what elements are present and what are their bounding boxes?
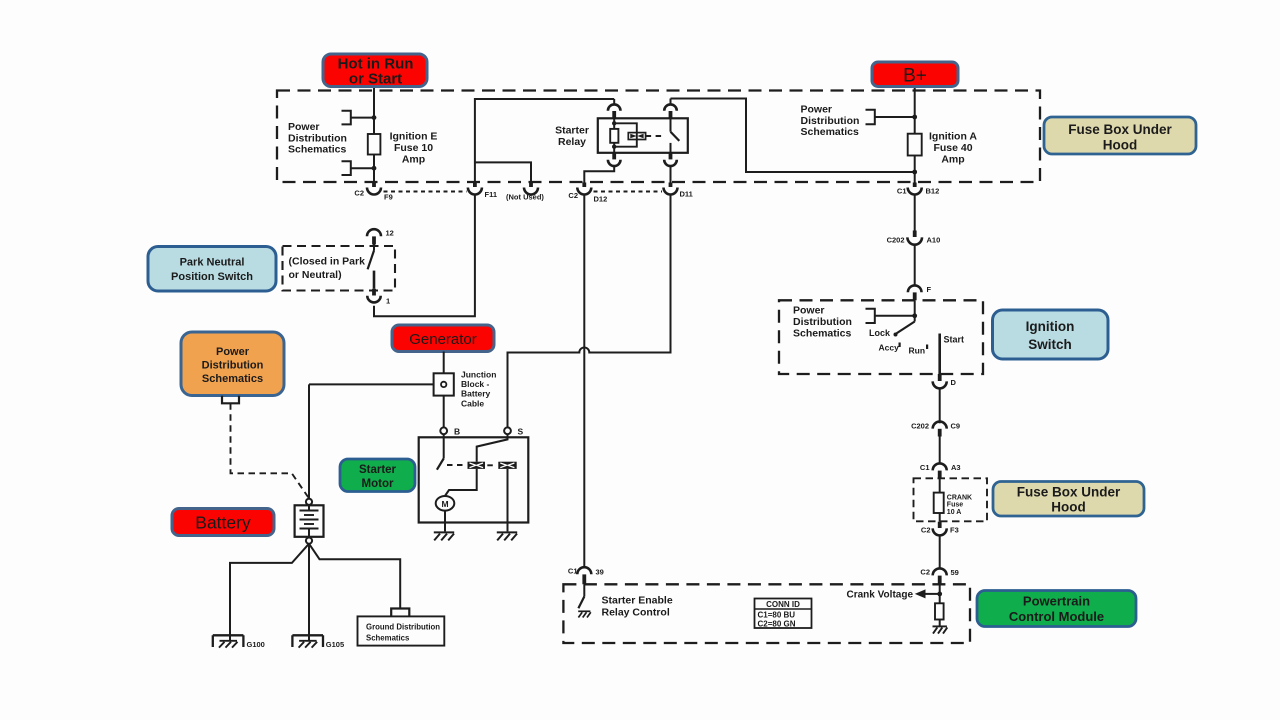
off-page connector bracket (to Ignition A fuse): [866, 110, 918, 125]
wire: battery negative to G100: [230, 544, 309, 640]
svg-text:12: 12: [386, 229, 394, 238]
wire: B+ to C202: [914, 195, 916, 231]
ground G100: [213, 635, 265, 649]
label: Starter Motor: [340, 459, 415, 492]
svg-text:Power: Power: [793, 305, 825, 317]
svg-text:Switch: Switch: [1028, 337, 1072, 352]
chassis ground (starter enable driver): [578, 611, 591, 617]
text: Power Distribution Schematics (ignition E feed): [288, 121, 347, 156]
svg-text:Park Neutral: Park Neutral: [180, 257, 245, 269]
powertrain control module enclosure (dashed box): [563, 584, 970, 643]
svg-text:39: 39: [596, 568, 604, 577]
svg-text:Starter Enable: Starter Enable: [602, 595, 673, 607]
label: Park Neutral Position Switch: [148, 247, 276, 292]
label: Ignition Switch: [993, 310, 1109, 359]
svg-text:C202: C202: [887, 236, 905, 245]
svg-text:Hood: Hood: [1051, 500, 1086, 515]
text: Starter Relay: [555, 125, 589, 149]
battery negative terminal: [306, 538, 312, 544]
svg-text:Junction: Junction: [461, 370, 496, 380]
svg-text:B+: B+: [903, 66, 927, 87]
battery positive terminal: [306, 499, 312, 505]
solenoid contact box 1: [468, 462, 486, 469]
svg-text:D12: D12: [594, 195, 608, 204]
svg-text:G105: G105: [326, 640, 344, 649]
svg-text:Battery: Battery: [195, 513, 251, 533]
svg-text:Control Module: Control Module: [1009, 609, 1104, 624]
starter relay box: [598, 118, 688, 153]
svg-text:Hood: Hood: [1103, 138, 1138, 153]
park neutral switch contacts: [368, 245, 374, 289]
text: Power Distribution Schematics (B+ feed): [801, 104, 860, 139]
connector C2 D12: [568, 183, 607, 204]
starter motor M: [436, 496, 455, 511]
svg-text:Generator: Generator: [409, 331, 477, 348]
svg-text:Fuse 10: Fuse 10: [394, 142, 433, 154]
connector D11: [664, 166, 693, 198]
svg-text:Ignition: Ignition: [1026, 319, 1075, 334]
svg-text:Power: Power: [216, 346, 250, 358]
svg-text:C202: C202: [911, 422, 929, 431]
ground distribution schematics box: [358, 616, 445, 645]
label: Fuse Box Under Hood (crank fuse): [993, 482, 1144, 517]
svg-text:G100: G100: [247, 640, 265, 649]
relay solenoid core (box with bowtie): [628, 133, 664, 140]
dashed wire: power distribution to battery: [231, 403, 310, 498]
text: Ignition A Fuse 40 Amp: [929, 131, 977, 166]
wire: motor to ground: [444, 511, 446, 532]
wire: Hot in Run feed through Ignition E fuse: [373, 86, 375, 183]
svg-text:C1: C1: [897, 187, 907, 196]
svg-text:Relay Control: Relay Control: [602, 607, 670, 619]
crank voltage sense arrow: [847, 584, 943, 603]
svg-text:Ignition A: Ignition A: [929, 131, 977, 143]
svg-text:Position Switch: Position Switch: [171, 271, 253, 283]
off-page tab above ground distribution box: [391, 609, 409, 617]
CONN ID table: [755, 599, 812, 629]
svg-text:C2: C2: [921, 526, 931, 535]
svg-text:Schematics: Schematics: [793, 328, 852, 340]
wire: solenoid S path to ground: [507, 469, 509, 532]
wire: S terminal to solenoid: [477, 434, 508, 462]
wire: F11 branch (from park/neutral switch up to starter relay coil): [374, 99, 614, 316]
svg-text:F11: F11: [485, 190, 498, 199]
connector F: [908, 285, 932, 300]
starter solenoid switch (B contact lever): [437, 434, 467, 470]
label: Power Distribution Schematics (orange): [181, 332, 284, 396]
chassis ground (starter solenoid): [497, 532, 517, 540]
connector: relay switch pin bottom: [664, 153, 677, 166]
svg-text:Schematics: Schematics: [202, 373, 263, 385]
relay switch contacts: [671, 118, 680, 153]
text: (Closed in Park or Neutral): [289, 256, 366, 282]
fuse: CRANK Fuse 10 A: [934, 478, 972, 521]
connector C1 B12: [897, 183, 939, 196]
battery: [295, 505, 324, 537]
svg-text:or Neutral): or Neutral): [289, 269, 342, 281]
off-page connector bracket (to Ignition E fuse, lower): [342, 161, 377, 175]
svg-text:Starter: Starter: [359, 464, 397, 476]
park neutral position switch enclosure (dashed box): [283, 246, 396, 291]
connector: relay switch pin top: [664, 99, 677, 119]
svg-text:Starter: Starter: [555, 125, 589, 137]
wire: solenoid to motor: [445, 469, 477, 496]
connector C202 C9: [911, 422, 960, 437]
wire: battery positive riser to junction block: [308, 384, 310, 498]
off-page connector bracket (ignition switch feed): [866, 309, 918, 323]
fuse: Ignition E Fuse 10 Amp: [368, 134, 381, 155]
ignition switch Start contact: [940, 334, 964, 375]
connector C2 F9: [354, 183, 392, 202]
connector C1 A3: [920, 463, 961, 478]
svg-text:Cable: Cable: [461, 398, 484, 408]
svg-text:Block -: Block -: [461, 379, 490, 389]
wire: B+ feed through Ignition A fuse: [914, 87, 916, 183]
fuse: Ignition A Fuse 40 Amp: [908, 134, 922, 156]
text: Junction Block - Battery Cable: [461, 370, 496, 409]
svg-text:A3: A3: [951, 463, 961, 472]
fuse box under hood enclosure (top dashed box): [277, 91, 1040, 183]
label: Generator: [392, 325, 494, 352]
starter motor box: [419, 437, 529, 522]
wire: battery negative to ground distribution: [309, 544, 400, 609]
svg-text:Schematics: Schematics: [366, 634, 410, 643]
svg-text:Fuse 40: Fuse 40: [933, 142, 972, 154]
svg-text:D11: D11: [680, 190, 693, 199]
label: Battery: [172, 509, 274, 536]
svg-text:Fuse Box Under: Fuse Box Under: [1068, 122, 1172, 137]
svg-text:B12: B12: [926, 187, 940, 196]
text: Power Distribution Schematics (ignition switch): [793, 305, 852, 340]
dotted connector line F9 to F11: [384, 191, 467, 193]
svg-text:Accy: Accy: [879, 343, 900, 353]
svg-text:Distribution: Distribution: [202, 360, 264, 372]
svg-text:Schematics: Schematics: [288, 144, 347, 156]
off-page tab below orange label: [222, 396, 239, 404]
svg-text:F3: F3: [950, 526, 959, 535]
label: Powertrain Control Module: [977, 591, 1136, 627]
svg-text:Power: Power: [288, 121, 320, 133]
svg-text:(Closed in Park: (Closed in Park: [289, 256, 366, 268]
svg-text:Relay: Relay: [558, 136, 586, 148]
ignition switch enclosure (dashed box): [779, 300, 983, 374]
svg-text:59: 59: [951, 568, 959, 577]
svg-text:Ground Distribution: Ground Distribution: [366, 623, 440, 632]
svg-text:Fuse: Fuse: [947, 502, 963, 509]
resistor (PCM pull-down): [935, 603, 944, 626]
svg-text:S: S: [518, 427, 524, 437]
wire: D to C202 C9: [939, 389, 941, 424]
text: Lock / Accy / Run position labels: [869, 328, 928, 356]
wire: D11 run down and across to starter S terminal (hop over D12 wire): [508, 195, 671, 428]
svg-text:Amp: Amp: [402, 154, 425, 166]
svg-text:C2: C2: [920, 568, 930, 577]
svg-text:10 A: 10 A: [947, 509, 962, 516]
wire: C9 to C1 A3: [939, 437, 941, 464]
svg-text:Power: Power: [801, 104, 833, 116]
svg-text:Fuse Box Under: Fuse Box Under: [1017, 485, 1121, 500]
connector C202 A10: [887, 231, 941, 245]
svg-text:or Start: or Start: [349, 71, 402, 88]
starter S terminal: [504, 427, 523, 437]
svg-text:C2: C2: [354, 189, 364, 198]
svg-text:C9: C9: [951, 422, 961, 431]
ground G105: [292, 635, 344, 649]
connector 12 (park neutral switch): [367, 229, 394, 245]
svg-text:B: B: [454, 427, 460, 437]
connector C1 39: [568, 567, 604, 585]
svg-text:1: 1: [386, 297, 390, 306]
junction block - battery cable: [434, 373, 454, 395]
svg-text:Crank Voltage: Crank Voltage: [847, 590, 914, 601]
svg-text:Run: Run: [909, 346, 926, 356]
connector D: [933, 374, 957, 388]
svg-text:Amp: Amp: [941, 154, 964, 166]
label: Hot in Run or Start: [323, 54, 427, 88]
solenoid contact box 2: [498, 462, 516, 469]
svg-text:Ignition E: Ignition E: [390, 131, 438, 143]
svg-text:Schematics: Schematics: [801, 126, 860, 138]
label: Fuse Box Under Hood (top right): [1044, 117, 1196, 154]
svg-text:Start: Start: [944, 335, 965, 345]
dashed link between contact boxes: [487, 464, 496, 466]
connector F11: [468, 183, 497, 200]
wire: A10 to F: [914, 245, 916, 286]
ignition switch rotor (lever to Lock position): [894, 300, 915, 336]
svg-text:C1: C1: [920, 463, 930, 472]
connector: relay coil pin top: [608, 99, 621, 118]
wire: junction block to starter B terminal: [443, 396, 445, 428]
starter B terminal: [440, 427, 460, 437]
starter enable relay control switch: [578, 584, 584, 608]
connector C2 59: [920, 568, 958, 585]
svg-text:Motor: Motor: [362, 478, 394, 490]
svg-text:C2: C2: [568, 191, 578, 200]
svg-text:Distribution: Distribution: [793, 316, 852, 328]
svg-text:F: F: [927, 285, 932, 294]
svg-text:Lock: Lock: [869, 328, 891, 338]
wire: generator output: [443, 352, 445, 374]
relay coil: [610, 118, 637, 153]
svg-text:CRANK: CRANK: [947, 495, 972, 502]
svg-text:Powertrain: Powertrain: [1023, 594, 1090, 609]
label: B+: [872, 62, 958, 87]
wire: battery negative to G105: [308, 544, 310, 640]
svg-text:CONN ID: CONN ID: [766, 600, 800, 609]
crank fuse enclosure (dashed box): [914, 478, 988, 521]
wire: relay coil to C2 D12: [584, 166, 614, 182]
off-page connector bracket (to Ignition E fuse, upper): [342, 111, 377, 125]
chassis ground (PCM internal): [933, 626, 948, 633]
svg-text:Battery: Battery: [461, 389, 491, 399]
svg-text:C1=80 BU: C1=80 BU: [758, 611, 796, 620]
dotted connector line D12 to D11: [594, 191, 663, 193]
svg-text:C1: C1: [568, 567, 578, 576]
svg-text:F9: F9: [384, 193, 393, 202]
wire: D12 run down to PCM C1 39: [583, 195, 585, 568]
wire: relay switch to B+ junction below Ignition A fuse: [671, 99, 918, 175]
connector: relay coil pin bottom: [608, 153, 621, 166]
connector C2 F3: [921, 522, 959, 536]
text: Ignition E Fuse 10 Amp: [390, 131, 438, 166]
svg-text:(Not Used): (Not Used): [506, 193, 544, 202]
connector (Not Used) stub: [506, 183, 544, 202]
chassis ground (starter motor): [434, 532, 454, 540]
svg-text:D: D: [951, 378, 957, 387]
svg-text:M: M: [441, 499, 448, 509]
wire: F3 to C2 59: [939, 536, 941, 569]
connector 1: [367, 289, 390, 306]
svg-text:C2=80 GN: C2=80 GN: [758, 619, 796, 628]
text: Starter Enable Relay Control: [602, 595, 673, 619]
wire: battery cable to junction block: [309, 383, 434, 385]
svg-text:A10: A10: [927, 236, 941, 245]
